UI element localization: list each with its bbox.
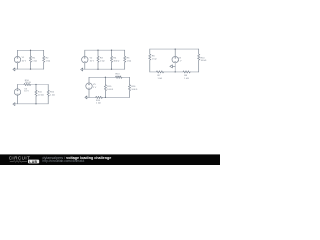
svg-text:1 kΩ: 1 kΩ xyxy=(184,78,189,80)
voltage source V3 xyxy=(172,56,178,62)
resistor R8 (C bottom-right horizontal) xyxy=(183,71,190,73)
logo LAB box xyxy=(28,160,39,164)
wire C bottom right xyxy=(190,71,199,73)
svg-text:100 Ω: 100 Ω xyxy=(131,89,137,91)
component labels xyxy=(22,55,207,104)
wire C bottom left xyxy=(150,71,157,73)
voltage source V2 xyxy=(82,56,88,62)
node B bottom 2 xyxy=(111,69,112,70)
svg-text:10 V: 10 V xyxy=(24,91,29,93)
resistor R3 xyxy=(97,50,99,69)
svg-text:10 kΩ: 10 kΩ xyxy=(38,94,44,96)
resistor R2 xyxy=(43,50,45,69)
node A top xyxy=(30,50,31,51)
resistor R14 (E bottom horizontal) xyxy=(96,96,103,98)
wire D bottom xyxy=(15,103,48,105)
ground D xyxy=(13,103,15,106)
resistor R1 xyxy=(29,50,31,69)
wire D top left xyxy=(18,84,25,86)
svg-text:10 kΩ: 10 kΩ xyxy=(201,60,207,62)
resistor R9 (C right edge) xyxy=(198,49,200,72)
node D top xyxy=(35,84,36,85)
resistor R4 xyxy=(110,50,112,69)
resistor R15 (E middle vertical) xyxy=(104,77,106,97)
footer bar xyxy=(0,154,220,165)
voltage source V4 xyxy=(14,89,20,95)
plain wires xyxy=(15,49,199,104)
svg-text:http://circuitlab.com/c8nmak4: http://circuitlab.com/c8nmak4 xyxy=(42,159,84,163)
resistor R13 (E top horizontal) xyxy=(115,76,122,78)
wire E bottom left xyxy=(87,96,96,98)
svg-text:100 Ω: 100 Ω xyxy=(25,82,31,84)
resistor R12 xyxy=(47,85,49,104)
voltage source V1 xyxy=(14,56,20,62)
svg-text:10 kΩ: 10 kΩ xyxy=(116,76,122,78)
wire C bottom mid xyxy=(164,71,183,73)
svg-text:1 kΩ: 1 kΩ xyxy=(100,60,105,62)
wire B bottom xyxy=(83,68,125,70)
voltage source V3 leads xyxy=(174,49,176,56)
voltage source V5 leads xyxy=(88,77,90,97)
svg-text:1 kΩ: 1 kΩ xyxy=(50,94,55,96)
logo resistor xyxy=(10,161,27,163)
wire C top xyxy=(150,48,199,50)
wire E bottom right xyxy=(102,96,129,98)
resistor R7 (C bottom-left horizontal) xyxy=(156,71,163,73)
resistor R16 (E right edge) xyxy=(128,77,130,97)
node C bottom xyxy=(175,71,176,72)
voltage source V5 xyxy=(86,83,92,89)
node B top 1 xyxy=(97,50,98,51)
svg-text:LAB: LAB xyxy=(29,160,37,164)
svg-text:10 V: 10 V xyxy=(90,61,95,63)
wire B top xyxy=(85,49,125,51)
ground C xyxy=(170,65,175,68)
voltage source V4 leads xyxy=(17,85,19,104)
node E bottom xyxy=(105,97,106,98)
ground E xyxy=(85,96,87,99)
node A bottom xyxy=(30,68,31,69)
node C top xyxy=(175,48,176,49)
wire E top left xyxy=(89,76,115,78)
node E top xyxy=(105,77,106,78)
svg-text:100 Ω: 100 Ω xyxy=(107,89,113,91)
resistor R11 xyxy=(35,85,37,104)
junction dots xyxy=(30,48,176,104)
svg-text:1 V: 1 V xyxy=(93,87,97,89)
svg-text:CIRCUIT: CIRCUIT xyxy=(9,155,31,160)
node B bottom 1 xyxy=(97,69,98,70)
svg-text:1 kΩ: 1 kΩ xyxy=(46,60,51,62)
svg-text:1 kΩ: 1 kΩ xyxy=(32,60,37,62)
wire A bottom xyxy=(15,68,44,70)
resistor R6 (C left edge) xyxy=(149,49,151,72)
svg-text:1 kΩ: 1 kΩ xyxy=(158,78,163,80)
voltage source V2 leads xyxy=(84,50,86,69)
svg-text:1 kΩ: 1 kΩ xyxy=(127,60,132,62)
svg-text:1 kΩ: 1 kΩ xyxy=(96,103,101,105)
resistor R5 xyxy=(124,50,126,69)
wire D top right xyxy=(31,84,49,86)
svg-text:1 V: 1 V xyxy=(178,61,182,63)
resistor R10 (D top horizontal) xyxy=(24,83,31,85)
svg-text:1 kΩ: 1 kΩ xyxy=(152,58,157,60)
ground A xyxy=(13,68,15,71)
wire E top right xyxy=(122,76,130,78)
voltage source V1 leads xyxy=(17,50,19,69)
ground B xyxy=(81,68,83,71)
node D bottom xyxy=(35,103,36,104)
node B top 2 xyxy=(111,50,112,51)
wire A top xyxy=(18,49,44,51)
wire C middle branch lower xyxy=(174,63,176,72)
svg-text:300 Ω: 300 Ω xyxy=(113,60,119,62)
svg-text:10 V: 10 V xyxy=(22,60,27,62)
component symbols xyxy=(13,49,200,106)
